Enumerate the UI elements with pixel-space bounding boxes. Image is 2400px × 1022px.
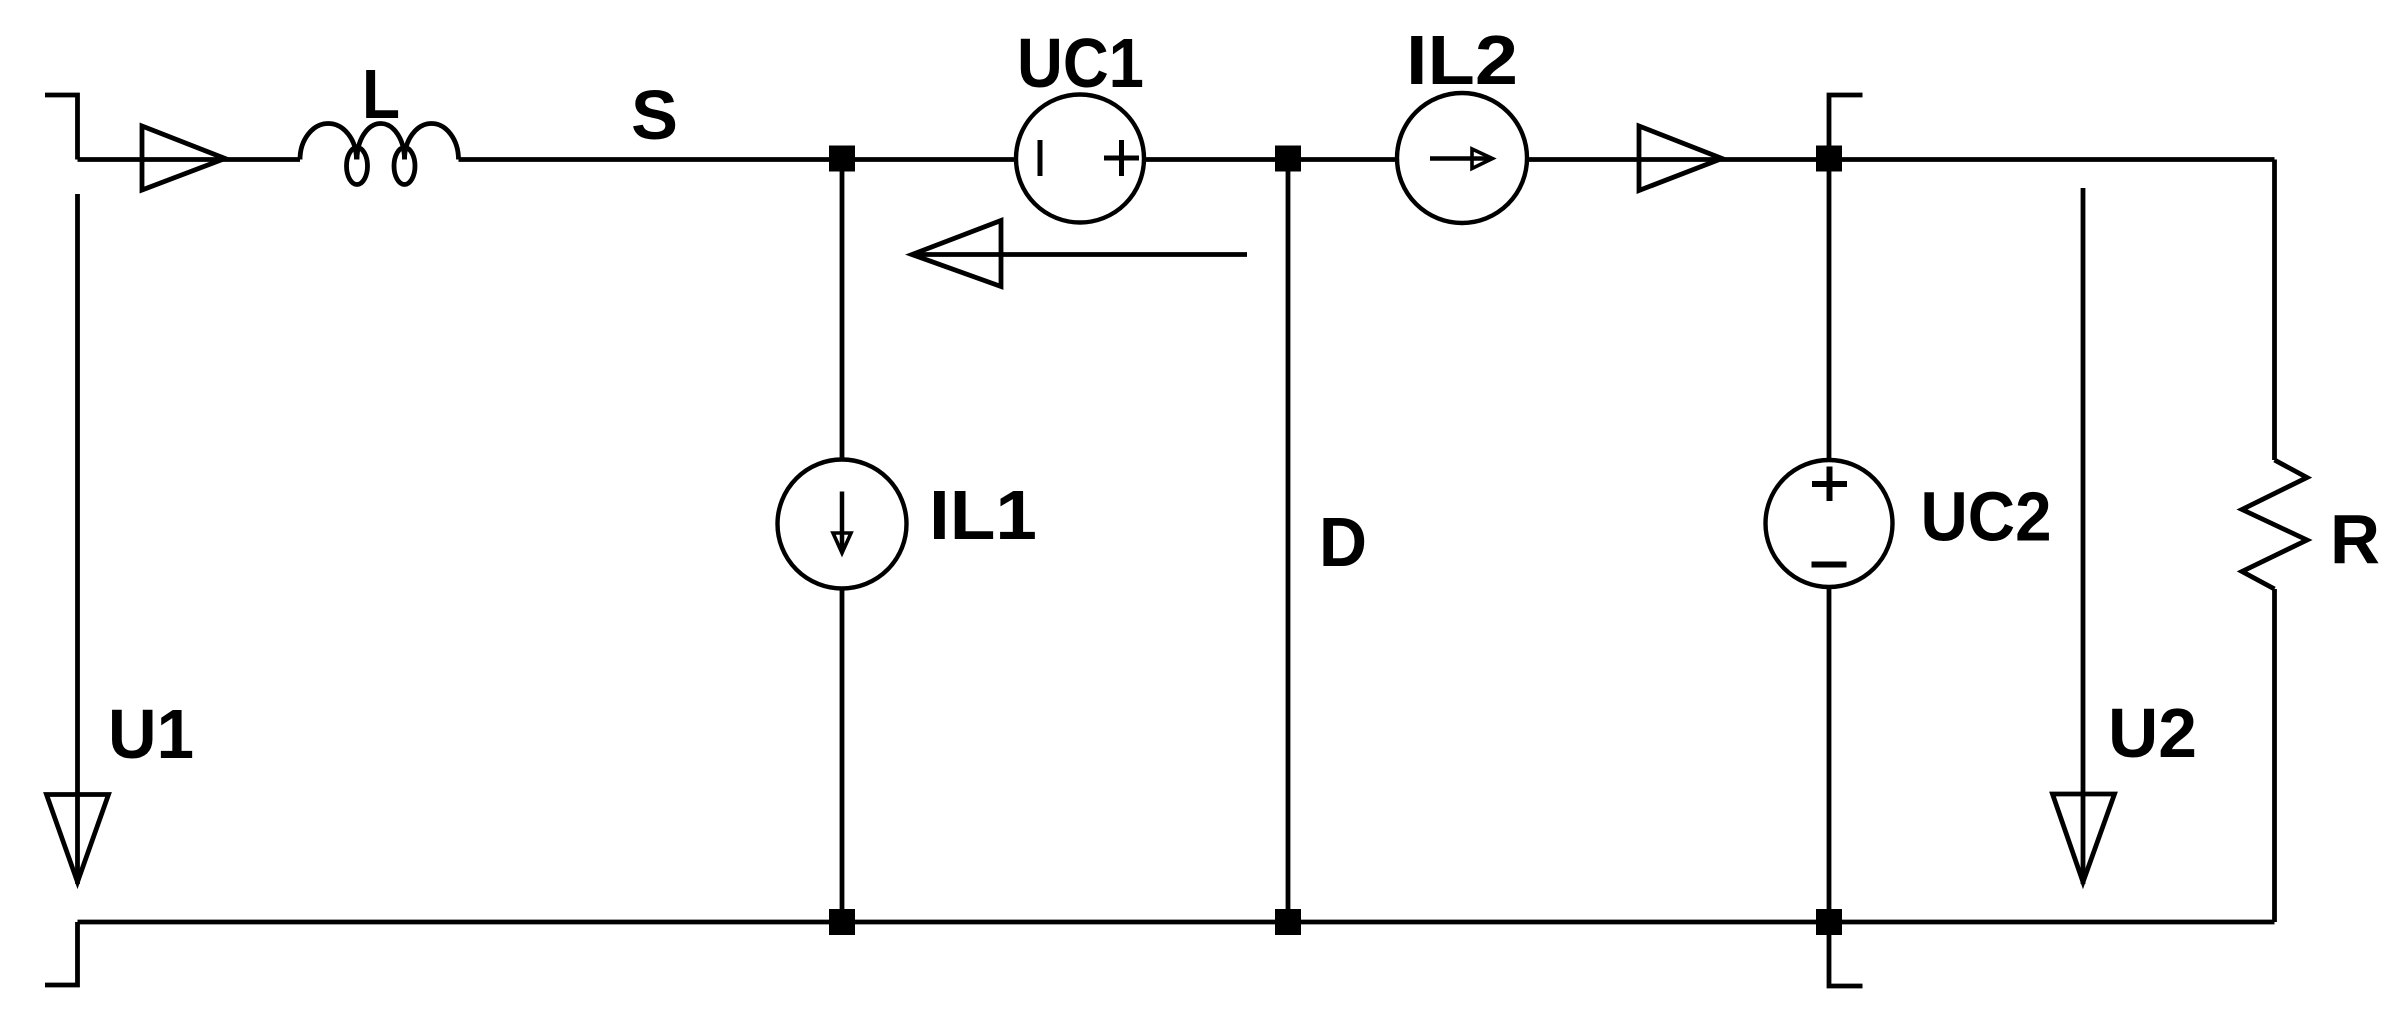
svg-text:S: S (631, 76, 678, 154)
UC2 minus sign (1812, 562, 1847, 568)
current source IL1 circle (778, 460, 907, 589)
branch IL1 wire lower (840, 589, 845, 923)
IL1 inner arrow head (833, 533, 851, 553)
svg-text:IL2: IL2 (1406, 21, 1518, 99)
wire right side upper (2272, 160, 2277, 461)
node square top D (1275, 146, 1301, 172)
UC1 minus bar (1038, 140, 1043, 176)
voltage arrow U1 head (47, 795, 109, 883)
voltage arrow U2 head (2053, 794, 2115, 882)
voltage source UC1 circle (1016, 95, 1144, 223)
terminal bottom-right (1829, 922, 1863, 986)
UC1 polarity arrow head (912, 221, 1001, 287)
wire right side lower (2272, 589, 2277, 922)
IL2 inner arrow head (1472, 149, 1493, 169)
UC1 plus sign (1104, 140, 1139, 176)
inductor L arch 3 (405, 124, 459, 160)
UC1 polarity arrow line (915, 252, 1247, 257)
UC2 plus sign (1812, 467, 1847, 502)
IL2 inner arrow line (1430, 156, 1490, 161)
branch UC2 wire lower (1827, 587, 1832, 922)
current source IL2 circle (1397, 93, 1527, 223)
svg-text:IL1: IL1 (929, 476, 1037, 554)
inductor L arch 2 (357, 124, 405, 160)
wire top: left segment to UC1 (78, 157, 301, 162)
current arrow output (1639, 126, 1722, 191)
wire bottom (78, 920, 2275, 925)
wire top: IL2 to right corner (1527, 157, 2275, 162)
inductor L loop 1 (347, 148, 368, 185)
terminal top-left (45, 95, 78, 160)
wire top: inductor to UC1 (459, 157, 1017, 162)
svg-text:U2: U2 (2108, 694, 2197, 772)
inductor L arch 1 (300, 124, 357, 160)
branch IL1 wire upper (840, 160, 845, 460)
node square bottom IL1 (829, 909, 855, 935)
svg-text:U1: U1 (108, 695, 194, 773)
node square top UC2 (1816, 146, 1842, 172)
voltage arrow U1 line (75, 194, 80, 884)
node square top IL1 (829, 146, 855, 172)
branch D wire (1286, 160, 1291, 923)
branch UC2 wire upper (1827, 160, 1832, 461)
svg-text:L: L (362, 55, 400, 133)
resistor R (2242, 460, 2307, 589)
current arrow input (142, 126, 225, 190)
svg-text:UC2: UC2 (1921, 478, 2052, 556)
node square bottom UC2 (1816, 909, 1842, 935)
IL1 inner arrow line (840, 492, 845, 553)
inductor L loop 2 (394, 148, 415, 185)
svg-text:D: D (1319, 503, 1367, 581)
terminal bottom-left (45, 922, 78, 985)
voltage source UC2 circle (1766, 460, 1893, 587)
wire top: between UC1 and IL2 (1144, 157, 1397, 162)
svg-text:R: R (2330, 500, 2380, 578)
voltage arrow U2 line (2081, 188, 2086, 884)
node square bottom D (1275, 909, 1301, 935)
svg-text:UC1: UC1 (1017, 24, 1144, 102)
terminal top-right (1829, 95, 1863, 160)
